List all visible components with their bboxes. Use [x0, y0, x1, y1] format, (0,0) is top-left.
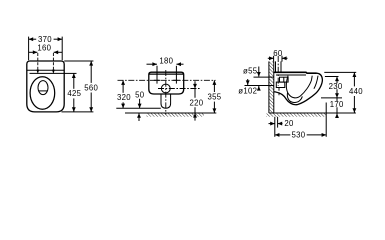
horizontal centerline fixing axis [118, 79, 216, 81]
seat inner opening [38, 81, 48, 95]
seat lower line [276, 74, 306, 76]
svg-text:60: 60 [273, 49, 283, 58]
bowl profile [274, 73, 323, 105]
dim 170 lower arrow [336, 113, 338, 117]
floor hatch front [147, 114, 205, 117]
fixing hole right cross [173, 79, 179, 81]
dia 102 arrow [258, 86, 260, 91]
svg-text:170: 170 [330, 100, 344, 109]
ext line body top right [64, 60, 93, 62]
wall face line [273, 61, 275, 113]
dim 530 ext right [325, 103, 327, 137]
svg-text:530: 530 [292, 131, 306, 140]
dim 160 ext right dashed [52, 53, 54, 70]
horizontal centerline outlet axis [158, 88, 200, 90]
hinge line [27, 69, 64, 71]
dim 20 ext left [274, 117, 276, 137]
dim 50 upper leader [139, 99, 141, 108]
hidden dashed line at wall [278, 88, 280, 96]
svg-text:20: 20 [284, 119, 294, 128]
seat top ext right [324, 71, 356, 73]
svg-text:320: 320 [117, 93, 131, 102]
dim 370 ext left [28, 37, 30, 61]
inlet elbow box divider [283, 77, 285, 82]
dim 220 upper arrow [194, 81, 196, 88]
svg-text:560: 560 [84, 83, 98, 92]
floor line front [125, 112, 216, 114]
svg-text:425: 425 [67, 89, 81, 98]
front inner rim line [314, 76, 318, 89]
seat top line [274, 71, 317, 74]
outlet spigot U [161, 94, 171, 108]
leader line dia55 axis [254, 76, 274, 78]
ext line body bottom right [62, 111, 94, 113]
svg-text:50: 50 [135, 90, 145, 99]
arrow to dia102 axis [247, 79, 249, 85]
wall back line [268, 61, 270, 113]
dim 220 lower arrow [194, 113, 196, 121]
dim 180 ext right [175, 66, 177, 84]
dim 370 line [29, 38, 37, 40]
dim 440 line [353, 72, 355, 86]
floor hatch side [266, 114, 326, 117]
dim 370 ext right [61, 37, 63, 61]
svg-text:220: 220 [190, 98, 204, 107]
dim 425 line [73, 73, 75, 88]
ext line seat step right [64, 72, 76, 74]
vertical centerline front [165, 70, 167, 115]
dim 530 line [275, 134, 291, 136]
dim 20 line right [278, 123, 283, 125]
dim 20 line left [269, 123, 275, 125]
outlet stub box [276, 82, 285, 87]
flush pipe left wall [275, 61, 277, 72]
inner chord [39, 90, 48, 92]
dim 170 line [336, 98, 338, 101]
outlet circle [161, 84, 170, 93]
bowl cavity line [286, 76, 312, 98]
svg-text:230: 230 [329, 82, 343, 91]
dim 220 line [194, 89, 196, 98]
dim 160 line right [54, 51, 62, 53]
dim 180 line left [147, 63, 158, 65]
wall hatch [269, 61, 274, 113]
dim 160 ext right arrow [52, 70, 55, 74]
body top band line [149, 73, 184, 75]
dim 20 ext right [277, 117, 279, 128]
bowl underside ext [321, 97, 342, 99]
dim 60 ext left [273, 56, 275, 62]
dim 180 line right [176, 63, 183, 65]
dim 320 line [122, 80, 124, 93]
fixing hole left cross [154, 79, 160, 81]
dim 160 ext left dashed [37, 53, 39, 70]
svg-text:160: 160 [37, 43, 51, 52]
dim 60 ext right [281, 56, 283, 62]
dim 180 ext left [156, 66, 158, 84]
floor line side [269, 112, 356, 114]
dia 55 arrow [258, 67, 260, 77]
svg-text:180: 180 [159, 57, 173, 66]
dim 160 ext left arrow [36, 70, 39, 74]
svg-text:355: 355 [208, 92, 222, 101]
dim 160 line left [29, 51, 37, 53]
svg-text:ø55: ø55 [243, 67, 258, 76]
seat step line [30, 72, 65, 74]
outlet bottom ext line [116, 107, 161, 109]
dim 230 line [336, 77, 338, 84]
inlet elbow box [280, 77, 289, 82]
dim 60 line right [282, 57, 288, 59]
dim 60 line left [268, 57, 274, 59]
toilet body outline (plan) [27, 61, 64, 112]
pipe axis centerline [277, 56, 279, 86]
leader line dia102 axis [245, 85, 274, 87]
svg-text:ø102: ø102 [238, 87, 257, 96]
seat outer ellipse [30, 77, 55, 109]
flush pipe right wall [280, 61, 282, 72]
svg-text:440: 440 [349, 87, 363, 96]
toilet body outline (front) [149, 72, 184, 94]
dim 355 line [213, 80, 215, 92]
trap inner arc [287, 93, 302, 103]
dim 50 lower arrow [138, 113, 140, 121]
dim 560 line [90, 61, 92, 83]
seat bottom ext right [325, 76, 339, 78]
